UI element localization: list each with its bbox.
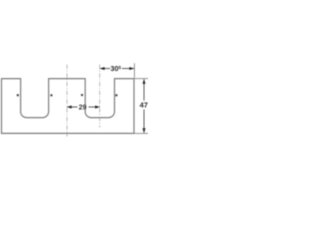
fixing hole left of cutout 2 bbox=[81, 94, 83, 96]
arrow right of 29 dim bbox=[95, 106, 100, 109]
arrow bottom of 47 dim bbox=[143, 128, 146, 133]
dimension line 30.5 left segment bbox=[100, 68, 110, 70]
arrow left of 29 dim bbox=[67, 106, 72, 109]
arrow right of 30.5 dim bbox=[129, 67, 134, 70]
arrow left of 30.5 dim bbox=[100, 67, 105, 70]
dimension line 29 left segment bbox=[67, 106, 78, 108]
extension line right edge (for 30.5 dim) bbox=[133, 63, 135, 78]
dimension line 29 right segment bbox=[89, 106, 100, 108]
dimension line 47 upper segment bbox=[143, 79, 145, 100]
extension line top right (for 47 dim) bbox=[135, 78, 148, 80]
fixing hole right of cutout 2 bbox=[115, 94, 117, 96]
fixing hole right of cutout 1 bbox=[50, 94, 52, 96]
svg-text:47: 47 bbox=[140, 100, 148, 109]
dimension line 47 lower segment bbox=[143, 110, 145, 133]
extension line bottom right (for 47 dim) bbox=[135, 132, 148, 134]
svg-text:29: 29 bbox=[79, 102, 87, 111]
washtop panel outline with two U-shaped cutouts bbox=[2, 79, 135, 134]
dimension line 30.5 right segment bbox=[122, 68, 134, 70]
centerline of panel (dash-dot) bbox=[66, 65, 68, 137]
svg-text:305: 305 bbox=[111, 64, 122, 73]
centerline of cutout 2 (dash-dot) bbox=[99, 65, 101, 128]
arrow top of 47 dim bbox=[143, 79, 146, 84]
fixing hole left of cutout 1 bbox=[17, 94, 19, 96]
